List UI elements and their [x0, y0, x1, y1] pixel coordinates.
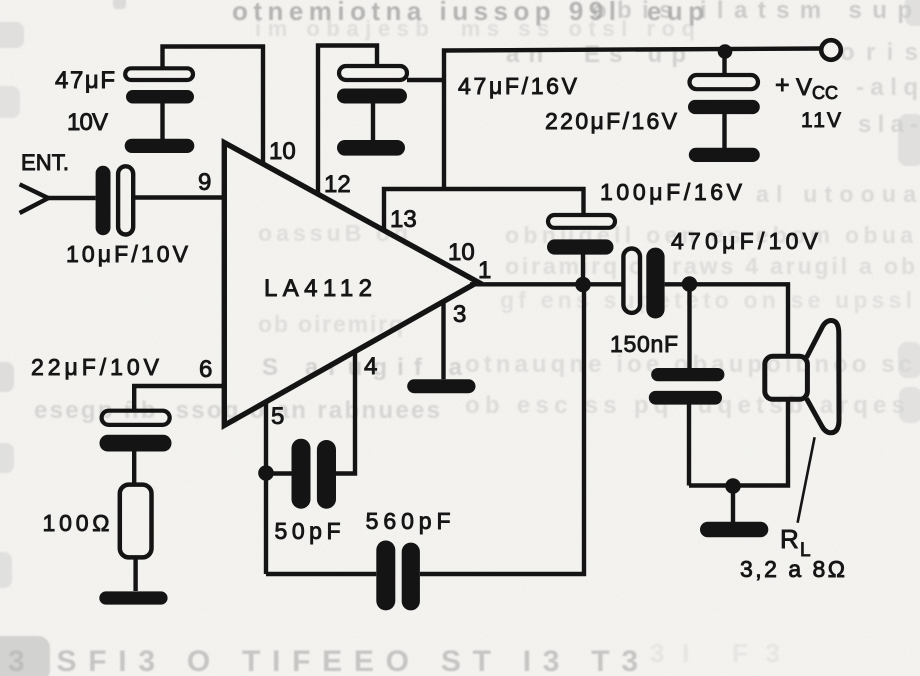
svg-text:11V: 11V — [801, 109, 841, 132]
svg-text:220μF/16V: 220μF/16V — [545, 108, 678, 134]
svg-text:R: R — [780, 524, 799, 554]
svg-text:+: + — [775, 71, 790, 99]
svg-text:5: 5 — [271, 403, 284, 430]
svg-text:100μF/16V: 100μF/16V — [600, 179, 743, 205]
svg-text:9: 9 — [198, 169, 211, 196]
svg-text:4: 4 — [364, 353, 377, 380]
svg-text:150nF: 150nF — [610, 331, 678, 357]
svg-text:47μF: 47μF — [55, 67, 115, 94]
svg-text:1: 1 — [478, 257, 491, 284]
svg-text:10V: 10V — [67, 109, 108, 136]
svg-text:V: V — [796, 74, 812, 101]
svg-text:560pF: 560pF — [366, 508, 451, 534]
svg-text:13: 13 — [390, 206, 417, 233]
svg-text:470μF/10V: 470μF/10V — [671, 228, 819, 254]
svg-text:12: 12 — [324, 171, 351, 198]
svg-text:3: 3 — [453, 301, 466, 328]
svg-text:an Es up: an Es up — [506, 41, 686, 68]
svg-text:ENT.: ENT. — [21, 150, 69, 175]
svg-text:LA4112: LA4112 — [264, 275, 376, 302]
svg-text:6: 6 — [199, 356, 212, 383]
svg-text:10: 10 — [269, 138, 296, 165]
svg-text:100Ω: 100Ω — [43, 510, 110, 536]
svg-text:CC: CC — [812, 83, 838, 103]
svg-text:3 SFI3 O TIFEEO ST I3 T3: 3 SFI3 O TIFEEO ST I3 T3 — [8, 645, 638, 676]
svg-text:ob oiremirq: ob oiremirq — [258, 311, 403, 337]
svg-text:10: 10 — [448, 239, 475, 266]
svg-text:3,2 a 8Ω: 3,2 a 8Ω — [740, 556, 845, 582]
svg-text:oiramirq ob raws 4 arugil a ob: oiramirq ob raws 4 arugil a ob — [505, 253, 915, 279]
